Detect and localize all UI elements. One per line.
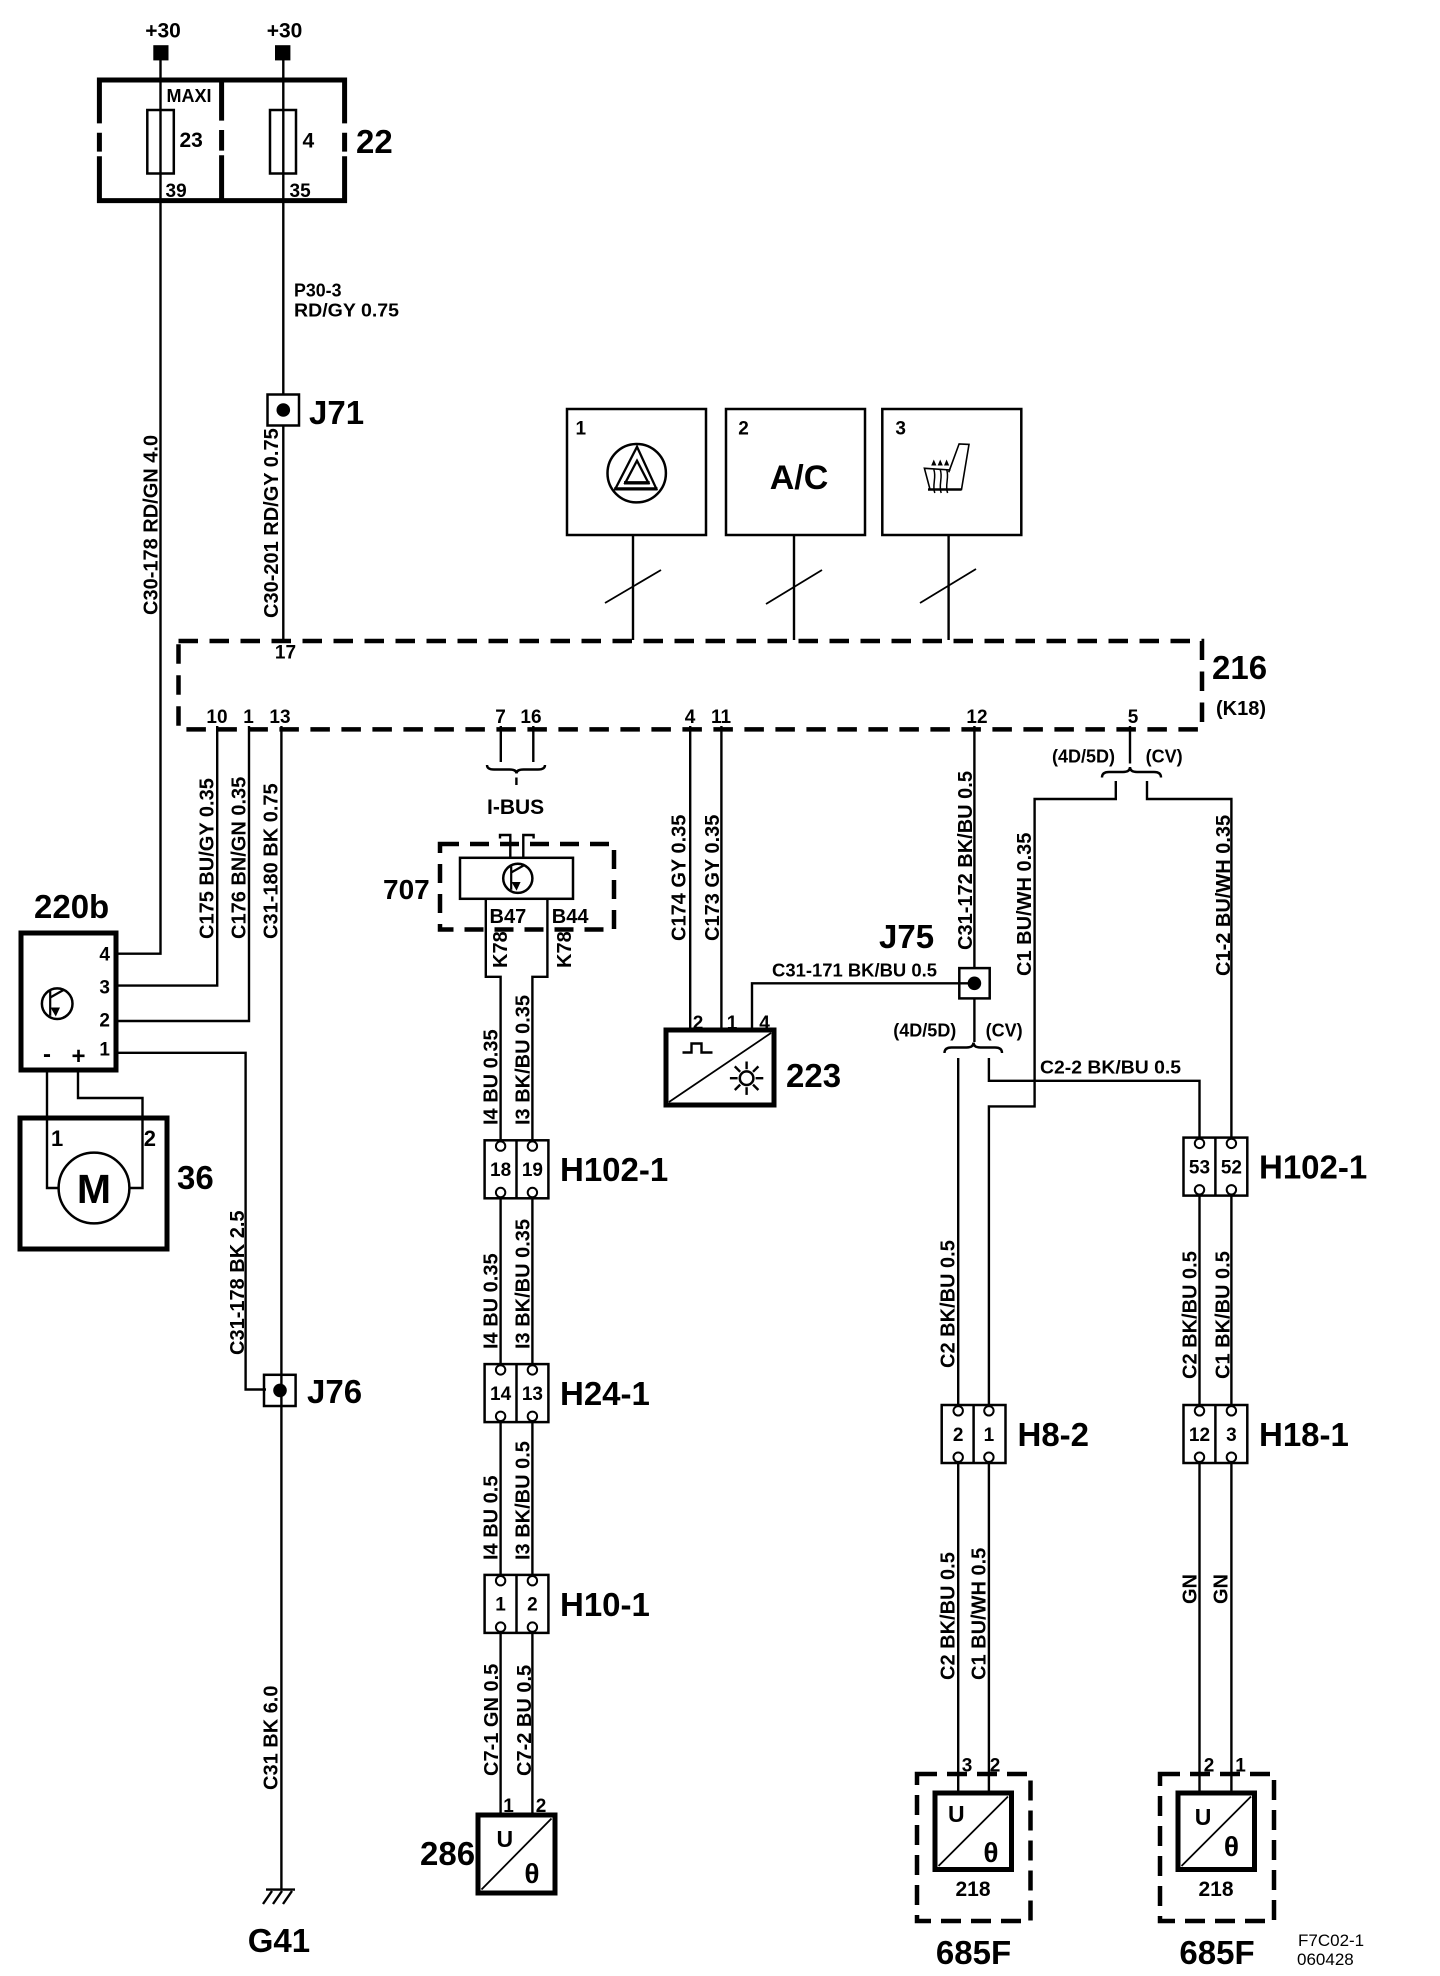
svg-text:13: 13: [269, 707, 290, 728]
svg-text:C7-1 GN 0.5: C7-1 GN 0.5: [481, 1664, 503, 1776]
label H24-1 cell 13: [522, 1384, 543, 1405]
wire I4 BU 0.35 from H102-1 to H24-1: [499, 1198, 501, 1365]
svg-text:H24-1: H24-1: [560, 1375, 650, 1412]
label 223 pin 1: [727, 1013, 738, 1034]
svg-text:F7C02-1: F7C02-1: [1298, 1931, 1364, 1950]
switch slash on wire 3: [920, 569, 976, 603]
svg-text:2: 2: [738, 419, 749, 440]
svg-text:I4 BU 0.5: I4 BU 0.5: [481, 1476, 503, 1560]
wire label C7-2 BU 0.5: [514, 1665, 536, 1776]
wire label I3 BK/BU 0.5: [513, 1441, 535, 1560]
label H18-1 cell 12: [1189, 1425, 1210, 1446]
svg-text:2: 2: [144, 1126, 156, 1151]
220b sensor icon: [42, 988, 73, 1019]
label 685F left pin 3: [962, 1756, 973, 1777]
label MAXI: [167, 86, 212, 106]
svg-text:H102-1: H102-1: [560, 1151, 668, 1188]
wire I4 BU 0.5 from H24-1 to H10-1: [499, 1422, 501, 1575]
svg-text:1: 1: [727, 1013, 738, 1034]
svg-text:(CV): (CV): [1146, 747, 1183, 767]
svg-text:286: 286: [420, 1835, 475, 1872]
wire C7-2 BU 0.5 from H10-1 to 286 pin 2: [531, 1633, 533, 1815]
terminal +30 right: [275, 45, 290, 60]
label 216 pin 16: [520, 707, 541, 728]
svg-text:35: 35: [290, 181, 312, 202]
svg-text:C30-178 RD/GN 4.0: C30-178 RD/GN 4.0: [141, 435, 163, 615]
wire C175 BU/GY 0.35 from 216 pin 10 to 220b pin 3: [116, 726, 217, 986]
wire label I4 BU 0.35 upper: [481, 1029, 503, 1125]
label 707: [383, 874, 430, 905]
svg-text:13: 13: [522, 1384, 543, 1405]
svg-text:U: U: [497, 1826, 514, 1852]
wire label C31-180 BK 0.75: [261, 783, 283, 939]
label F7C02-1: [1298, 1931, 1364, 1950]
solar sensor 286 (U/theta): [478, 1815, 555, 1893]
label (K18): [1216, 698, 1266, 720]
svg-text:5: 5: [1128, 707, 1139, 728]
motor M circle: [59, 1153, 130, 1224]
label H10-1 cell 1: [495, 1595, 506, 1616]
svg-text:C176 BN/GN 0.35: C176 BN/GN 0.35: [229, 777, 251, 939]
svg-text:H10-1: H10-1: [560, 1586, 650, 1623]
label 286 U: [497, 1826, 514, 1852]
svg-text:I4 BU 0.35: I4 BU 0.35: [481, 1253, 503, 1349]
wire C7-1 GN 0.5 from H10-1 to 286 pin 1: [499, 1633, 501, 1815]
wire label K78 right: [554, 931, 576, 968]
fuse box 22 (dashed): [97, 78, 347, 204]
wire I3 BK/BU 0.35 from H102-1 to H24-1: [531, 1198, 533, 1365]
svg-text:I-BUS: I-BUS: [487, 796, 544, 819]
switch box 2 (A/C): [726, 409, 865, 535]
svg-text:C31-180 BK 0.75: C31-180 BK 0.75: [261, 783, 283, 939]
switch slash on wire 2: [766, 570, 822, 604]
wire label C174 GY 0.35: [669, 815, 691, 941]
label switch 3: [895, 419, 906, 440]
svg-text:C175 BU/GY 0.35: C175 BU/GY 0.35: [197, 778, 219, 939]
svg-text:1: 1: [99, 1040, 110, 1061]
wire 220b minus to motor 36 pin 1: [47, 1070, 59, 1188]
label C2-2 BK/BU 0.5: [1040, 1058, 1181, 1078]
label 220b pin 1: [99, 1040, 110, 1061]
wire C31-171 BK/BU 0.5 from 223 pin 4 to J75: [752, 983, 974, 1030]
svg-text:C174 GY 0.35: C174 GY 0.35: [669, 815, 691, 941]
svg-text:4: 4: [303, 130, 315, 153]
label fuse number 4: [303, 130, 315, 153]
connector H8-2 pins 2 1: [942, 1405, 1006, 1463]
svg-text:11: 11: [711, 707, 732, 728]
control unit 707 (dashed box): [440, 844, 614, 930]
svg-text:53: 53: [1189, 1158, 1210, 1179]
label fuse pin 35: [290, 181, 312, 202]
wire from switch box 3 to 216: [947, 535, 949, 640]
label 220b pin 2: [99, 1011, 110, 1032]
label motor pin 1: [51, 1126, 63, 1151]
svg-text:12: 12: [966, 707, 987, 728]
wire GN from H18-1 pin 12 to right 685F pin 2: [1198, 1463, 1200, 1793]
svg-text:1: 1: [51, 1126, 63, 1151]
svg-text:C31-172 BK/BU 0.5: C31-172 BK/BU 0.5: [955, 771, 977, 950]
wire label I4 BU 0.35 lower: [481, 1253, 503, 1349]
wire C176 BN/GN 0.35 from 216 pin 1 to 220b pin 2: [116, 726, 249, 1021]
label C31-171 BK/BU 0.5: [772, 961, 937, 981]
svg-text:C2 BK/BU 0.5: C2 BK/BU 0.5: [938, 1552, 960, 1680]
svg-text:218: 218: [1198, 1878, 1233, 1901]
svg-text:θ: θ: [524, 1858, 539, 1889]
label H10-1 cell 2: [527, 1595, 538, 1616]
heated seat icon: [924, 444, 969, 493]
label 216 pin 4: [685, 707, 696, 728]
label fuse number 23: [180, 129, 203, 152]
wire label C31 BK 6.0: [261, 1686, 283, 1791]
svg-text:685F: 685F: [936, 1934, 1011, 1971]
wire label I3 BK/BU 0.35 lower: [513, 1219, 535, 1349]
wire K78 I3 from 707 B44 to H102-1 pin 19: [532, 899, 547, 1141]
wire label C1-2 BU/WH 0.35: [1213, 815, 1235, 976]
svg-text:2: 2: [1204, 1756, 1215, 1777]
label (CV) at J75: [986, 1021, 1023, 1041]
label J71: [309, 394, 364, 431]
svg-text:4: 4: [759, 1013, 770, 1034]
svg-text:1: 1: [576, 419, 587, 440]
707 sensor icon: [503, 864, 532, 893]
wire label C30-201 RD/GY 0.75: [261, 428, 283, 618]
svg-text:C7-2 BU 0.5: C7-2 BU 0.5: [514, 1665, 536, 1776]
svg-text:2: 2: [536, 1796, 547, 1817]
wire 216 pin 7 I-BUS stub: [500, 726, 502, 762]
svg-text:2: 2: [953, 1425, 964, 1446]
label 216 pin 11: [711, 707, 732, 728]
label 220b minus: [43, 1041, 51, 1068]
svg-text:-: -: [43, 1041, 51, 1068]
label 685F right pin 2: [1204, 1756, 1215, 1777]
svg-text:223: 223: [786, 1057, 841, 1094]
label G41: [248, 1922, 310, 1959]
svg-text:C1 BU/WH 0.35: C1 BU/WH 0.35: [1014, 833, 1036, 976]
wire C2-2 BK/BU 0.5 (CV) from J75 brace to H102-1 pin 53: [989, 1058, 1200, 1139]
svg-text:23: 23: [180, 129, 203, 152]
wire C1-2 BU/WH 0.35 (CV) from pin5 brace to H102-1 pin 52: [1147, 781, 1231, 1139]
svg-text:22: 22: [356, 123, 393, 160]
connector H18-1 pins 12 3: [1184, 1405, 1248, 1463]
svg-text:GN: GN: [1211, 1574, 1233, 1604]
label H8-2: [1018, 1416, 1090, 1453]
svg-text:+: +: [71, 1043, 85, 1070]
fuse 23 MAXI: [147, 110, 174, 174]
svg-text:1: 1: [495, 1595, 506, 1616]
connector pin hooks B47 B44 on top of 707: [500, 835, 534, 859]
label right 218 U: [1195, 1804, 1212, 1830]
left sensor 218 (U/theta): [935, 1793, 1012, 1870]
svg-text:+30: +30: [267, 20, 303, 43]
label 685F right pin 1: [1235, 1756, 1246, 1777]
label (4D/5D) top: [1052, 747, 1115, 767]
label H8-2 cell 2: [953, 1425, 964, 1446]
svg-text:1: 1: [1235, 1756, 1246, 1777]
svg-text:J75: J75: [879, 918, 934, 955]
label A/C: [770, 459, 829, 497]
svg-text:39: 39: [166, 181, 187, 202]
wire label C2 BK/BU 0.5 above H8-2: [938, 1240, 960, 1368]
svg-text:+30: +30: [145, 20, 181, 43]
label 36: [177, 1159, 214, 1196]
svg-text:3: 3: [99, 978, 110, 999]
label J75: [879, 918, 934, 955]
svg-text:(K18): (K18): [1216, 698, 1266, 720]
svg-text:H102-1: H102-1: [1259, 1149, 1367, 1186]
svg-text:14: 14: [490, 1384, 512, 1405]
label 216 pin 12: [966, 707, 987, 728]
label 685F left pin 2: [990, 1756, 1001, 1777]
svg-text:52: 52: [1221, 1158, 1242, 1179]
svg-text:060428: 060428: [1297, 1950, 1354, 1969]
wire label C2 BK/BU 0.5 right column: [1180, 1251, 1202, 1379]
label 223 pin 2: [693, 1013, 704, 1034]
label P30-3 RD/GY 0.75: [294, 281, 399, 321]
svg-text:K78: K78: [554, 931, 576, 968]
control module 216 (dashed box): [179, 641, 1203, 729]
svg-text:J71: J71: [309, 394, 364, 431]
label H10-1: [560, 1586, 650, 1623]
wire C31-178 BK 2.5 from 220b pin 1 to J76: [116, 1053, 266, 1390]
wire label C1 BK/BU 0.5 right column: [1213, 1251, 1235, 1379]
svg-text:1: 1: [243, 707, 254, 728]
wire label C30-178 RD/GN 4.0: [141, 435, 163, 615]
label 216 pin 10: [206, 707, 227, 728]
right 685F (dashed box): [1160, 1774, 1274, 1921]
blower motor 36: [20, 1118, 167, 1249]
wire label C31-178 BK 2.5: [227, 1210, 249, 1355]
label H18-1: [1259, 1416, 1349, 1453]
junction J76: [264, 1375, 296, 1406]
label H24-1 cell 14: [490, 1384, 512, 1405]
wire C2 BK/BU 0.5 (4D/5D) from J75 brace to H8-2 pin 2: [957, 1058, 959, 1406]
svg-text:B44: B44: [552, 906, 590, 928]
svg-text:685F: 685F: [1179, 1934, 1254, 1971]
label 286 pin 1: [503, 1796, 514, 1817]
hazard warning icon: [608, 444, 666, 502]
svg-text:C2-2 BK/BU 0.5: C2-2 BK/BU 0.5: [1040, 1058, 1181, 1078]
svg-text:36: 36: [177, 1159, 214, 1196]
label left 218 theta: [983, 1837, 998, 1868]
label 216 pin 7: [495, 707, 506, 728]
svg-text:2: 2: [990, 1756, 1001, 1777]
svg-text:(4D/5D): (4D/5D): [1052, 747, 1115, 767]
svg-text:C1-2 BU/WH 0.35: C1-2 BU/WH 0.35: [1213, 815, 1235, 976]
wire C30-201 RD/GY 0.75 from J71 to 216 pin 17: [282, 426, 284, 641]
svg-text:MAXI: MAXI: [167, 86, 212, 106]
svg-text:C2 BK/BU 0.5: C2 BK/BU 0.5: [938, 1240, 960, 1368]
svg-text:C30-201 RD/GY 0.75: C30-201 RD/GY 0.75: [261, 428, 283, 618]
svg-text:I3 BK/BU 0.35: I3 BK/BU 0.35: [513, 1219, 535, 1349]
label B47: [490, 906, 527, 928]
wire label C176 BN/GN 0.35: [229, 777, 251, 939]
svg-text:U: U: [1195, 1804, 1212, 1830]
label H102-1 cell 53: [1189, 1158, 1210, 1179]
label J76: [307, 1373, 362, 1410]
svg-text:C31-171 BK/BU 0.5: C31-171 BK/BU 0.5: [772, 961, 937, 981]
label 220b: [34, 888, 109, 925]
label +30 right: [267, 20, 303, 43]
label H102-1 cell 19: [522, 1160, 543, 1181]
label left 218: [955, 1878, 990, 1901]
wire C174 GY 0.35 from 216 pin 4 to 223 pin 2: [689, 726, 691, 1030]
label 216 pin 5: [1128, 707, 1139, 728]
svg-text:C173 GY 0.35: C173 GY 0.35: [702, 815, 724, 941]
wire 216 pin 16 I-BUS stub: [532, 726, 534, 762]
label left 218 U: [948, 1801, 965, 1827]
label +30 left: [145, 20, 181, 43]
label 060428: [1297, 1950, 1354, 1969]
svg-text:1: 1: [503, 1796, 514, 1817]
label 220b pin 3: [99, 978, 110, 999]
label B44: [552, 906, 590, 928]
wire from J75 to variant brace: [973, 998, 975, 1042]
label 286 pin 2: [536, 1796, 547, 1817]
svg-text:G41: G41: [248, 1922, 310, 1959]
svg-text:2: 2: [693, 1013, 704, 1034]
svg-text:3: 3: [962, 1756, 973, 1777]
svg-text:220b: 220b: [34, 888, 109, 925]
wire 216 pin 5 stub to brace: [1129, 726, 1131, 764]
wire C1 BU/WH 0.35 (4D/5D) from pin5 brace to H8-2 pin 1: [989, 781, 1116, 1406]
label H8-2 cell 1: [984, 1425, 995, 1446]
label fuse pin 39: [166, 181, 187, 202]
brace collecting pins 7 and 16 into I-BUS: [487, 765, 545, 785]
svg-text:K78: K78: [490, 931, 512, 968]
label left 685F: [936, 1934, 1011, 1971]
svg-text:(CV): (CV): [986, 1021, 1023, 1041]
wire C1 BU/WH 0.5 from H8-2 to 685F pin 2: [988, 1463, 990, 1793]
junction J75: [959, 968, 989, 998]
wire K78 I4 from 707 B47 to H102-1 pin 18: [486, 899, 501, 1141]
label motor pin 2: [144, 1126, 156, 1151]
label H102-1 cell 52: [1221, 1158, 1242, 1179]
svg-text:H18-1: H18-1: [1259, 1416, 1349, 1453]
wire GN from H18-1 pin 3 to right 685F pin 1: [1230, 1463, 1232, 1793]
fuse 4: [270, 110, 296, 174]
svg-text:J76: J76: [307, 1373, 362, 1410]
svg-text:θ: θ: [1224, 1831, 1239, 1862]
svg-text:4: 4: [99, 945, 110, 966]
wire label C2 BK/BU 0.5 below H8-2: [938, 1552, 960, 1680]
label I-BUS: [487, 796, 544, 819]
svg-text:A/C: A/C: [770, 459, 829, 497]
223 sun icon: [730, 1062, 763, 1095]
label 216 pin 13: [269, 707, 290, 728]
wire C173 GY 0.35 from 216 pin 11 to 223 pin 1: [720, 726, 722, 1030]
svg-text:2: 2: [527, 1595, 538, 1616]
label 223: [786, 1057, 841, 1094]
connector H10-1 pins 1 2: [485, 1575, 549, 1633]
svg-text:GN: GN: [1180, 1574, 1202, 1604]
svg-text:10: 10: [206, 707, 227, 728]
svg-text:U: U: [948, 1801, 965, 1827]
wire C30-178 RD/GN 4.0 from +30 via fuse 23 to 220b pin 4: [116, 59, 161, 954]
svg-text:16: 16: [520, 707, 541, 728]
label H18-1 cell 3: [1226, 1425, 1237, 1446]
brace under 216 pin 5 (4D/5D vs CV variants): [1102, 767, 1161, 778]
svg-text:(4D/5D): (4D/5D): [893, 1021, 956, 1041]
svg-text:216: 216: [1212, 649, 1267, 686]
wire label C7-1 GN 0.5: [481, 1664, 503, 1776]
label H102-1 cell 18: [490, 1160, 511, 1181]
wire C2 BK/BU 0.5 from H102-1 pin 53 to H18-1 pin 12: [1198, 1195, 1200, 1406]
twilight sensor 223: [666, 1030, 774, 1105]
label right 218 theta: [1224, 1831, 1239, 1862]
junction J71: [268, 395, 300, 426]
connector H102-1 pins 53 52: [1184, 1138, 1248, 1196]
label 216 pin 17: [275, 643, 296, 664]
svg-text:19: 19: [522, 1160, 543, 1181]
wire label C175 BU/GY 0.35: [197, 778, 219, 939]
svg-text:RD/GY 0.75: RD/GY 0.75: [294, 301, 399, 321]
label M: [77, 1166, 111, 1212]
wire label K78 left: [490, 931, 512, 968]
right sensor 218 (U/theta): [1178, 1793, 1255, 1870]
label right 685F: [1179, 1934, 1254, 1971]
svg-text:707: 707: [383, 874, 430, 905]
brace under J75 (4D/5D vs CV variants): [945, 1043, 1003, 1054]
wire label I4 BU 0.5: [481, 1476, 503, 1560]
wire label C173 GY 0.35: [702, 815, 724, 941]
svg-text:P30-3: P30-3: [294, 281, 342, 301]
svg-text:I3 BK/BU 0.35: I3 BK/BU 0.35: [513, 995, 535, 1125]
wire from switch box 2 to 216: [793, 535, 795, 640]
svg-text:3: 3: [895, 419, 906, 440]
label 220b pin 4: [99, 945, 110, 966]
label (CV) top: [1146, 747, 1183, 767]
label H24-1: [560, 1375, 650, 1412]
svg-text:18: 18: [490, 1160, 511, 1181]
wire from switch box 1 to 216: [632, 535, 634, 640]
label right 218: [1198, 1878, 1233, 1901]
svg-text:4: 4: [685, 707, 696, 728]
wire P30-3 / C30-201 RD/GY 0.75 from +30 via fuse 4 to J71: [282, 59, 284, 395]
svg-text:I4 BU 0.35: I4 BU 0.35: [481, 1029, 503, 1125]
svg-text:218: 218: [955, 1878, 990, 1901]
label 220b plus: [71, 1043, 85, 1070]
wire I3 BK/BU 0.5 from H24-1 to H10-1: [531, 1422, 533, 1575]
switch box 3 (heated seat): [882, 409, 1021, 535]
connector H24-1 pins 14 13: [485, 1364, 549, 1422]
label H102-1 middle: [560, 1151, 668, 1188]
wire label GN right: [1211, 1574, 1233, 1604]
svg-text:12: 12: [1189, 1425, 1210, 1446]
wire label C31-172 BK/BU 0.5: [955, 771, 977, 950]
svg-text:2: 2: [99, 1011, 110, 1032]
left 685F (dashed box): [917, 1774, 1031, 1921]
svg-text:C1 BK/BU 0.5: C1 BK/BU 0.5: [1213, 1251, 1235, 1379]
label 216: [1212, 649, 1267, 686]
label 286: [420, 1835, 475, 1872]
svg-text:M: M: [77, 1166, 111, 1212]
svg-text:C1 BU/WH 0.5: C1 BU/WH 0.5: [969, 1548, 991, 1680]
wire label C1 BU/WH 0.5 below H8-2: [969, 1548, 991, 1680]
svg-text:I3 BK/BU 0.5: I3 BK/BU 0.5: [513, 1441, 535, 1560]
svg-text:C2 BK/BU 0.5: C2 BK/BU 0.5: [1180, 1251, 1202, 1379]
label H102-1 right: [1259, 1149, 1367, 1186]
terminal +30 left: [153, 45, 168, 60]
svg-text:C31-178 BK 2.5: C31-178 BK 2.5: [227, 1210, 249, 1355]
wire C31-180 BK 0.75 / C31 BK 6.0 from 216 pin 13 through J76 to ground G41: [280, 726, 282, 1890]
svg-text:B47: B47: [490, 906, 527, 928]
label 286 theta: [524, 1858, 539, 1889]
svg-text:θ: θ: [983, 1837, 998, 1868]
label 22: [356, 123, 393, 160]
wire label C1 BU/WH 0.35: [1014, 833, 1036, 976]
wire label I3 BK/BU 0.35 upper: [513, 995, 535, 1125]
wire C31-172 BK/BU 0.5 from 216 pin 12 to J75: [973, 726, 975, 968]
